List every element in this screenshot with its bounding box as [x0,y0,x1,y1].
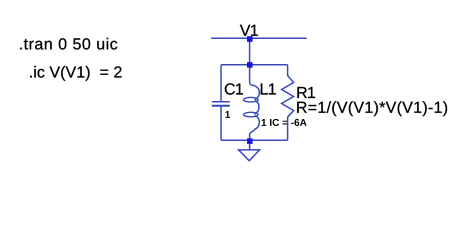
capacitor C1 name label [225,83,243,94]
junction square center [247,62,253,68]
spice directive .tran [20,38,117,50]
resistor R1 value label [297,101,447,116]
capacitor C1 [212,65,230,141]
junction square bottom [247,138,253,144]
node V1 label [240,25,258,36]
inductor L1 name label [261,83,276,94]
capacitor C1 value label 1 [225,111,230,118]
wire vertical from top net to center junction [249,38,251,64]
resistor R1 name label [297,87,315,98]
inductor L1 value label 1 IC = -6A [262,119,307,126]
junction square top [247,36,253,42]
spice directive .ic [30,66,121,81]
ground symbol [239,143,260,161]
wire bottom horizontal [221,139,288,141]
wire top horizontal net V1 [211,37,307,39]
inductor L1 coil [244,65,260,141]
resistor R1 zigzag [282,65,294,141]
wire horizontal center junction row [221,64,288,66]
